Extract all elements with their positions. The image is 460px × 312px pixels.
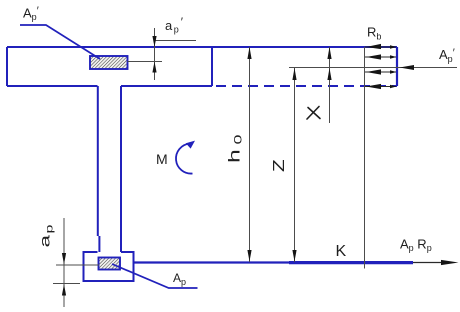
- dimension h0 up arrow: [247, 47, 251, 59]
- svg-text:Z: Z: [269, 159, 287, 172]
- dimension X upper arrow: [327, 47, 331, 59]
- wire web left edge: [98, 86, 100, 252]
- svg-text:Ap′: Ap′: [23, 5, 39, 22]
- dimension ap' up arrow: [152, 62, 156, 73]
- dimension Z vertical line: [294, 68, 296, 263]
- svg-text:K: K: [336, 243, 347, 260]
- label X: [307, 107, 320, 120]
- wire stress ordinate line Rb: [396, 47, 398, 86]
- svg-text:Ap′: Ap′: [439, 47, 455, 64]
- node bottom block outline: [84, 252, 134, 281]
- dimension ap extension line steel: [56, 264, 99, 266]
- moment arc M: [176, 141, 195, 174]
- dimension Z up arrow: [292, 68, 296, 80]
- component reinforcement Ap' hatched rect: [90, 56, 128, 69]
- force Rb arrow row 4: [365, 84, 397, 89]
- wire leader Ap bottom: [112, 264, 198, 288]
- dimension ap extension line soffit: [53, 283, 80, 285]
- force Rb arrow row 2: [365, 54, 397, 59]
- dimension Z down arrow: [292, 250, 296, 262]
- svg-text:Ap Rp: Ap Rp: [400, 237, 432, 254]
- wire flange left edge: [6, 47, 8, 86]
- force Ap' arrow right: [400, 65, 415, 70]
- node top chord line: [7, 46, 397, 48]
- dimension X lower arrow: [327, 68, 331, 80]
- dimension ap' vertical line: [154, 28, 156, 80]
- svg-text:ap: ap: [37, 225, 55, 248]
- wire web right edge: [120, 86, 122, 252]
- svg-text:M: M: [156, 151, 168, 167]
- wire flange right edge: [211, 47, 213, 86]
- force Rb arrow row 3: [365, 69, 397, 74]
- wire flange bottom edge: [7, 85, 212, 87]
- dimension Z extension line and Ap' force line: [289, 67, 457, 69]
- svg-text:ap′: ap′: [165, 15, 184, 35]
- dimension h0 vertical line: [249, 47, 251, 262]
- svg-text:h0: h0: [226, 135, 245, 163]
- node neutral axis dashed line: [216, 85, 397, 87]
- dimension ap' down arrow: [152, 36, 156, 47]
- dimension ap up arrow: [62, 284, 66, 296]
- dimension ap bottom vertical line: [63, 218, 65, 307]
- dimension ap' extension line: [128, 61, 163, 63]
- dimension ap' label shelf: [155, 40, 196, 42]
- dimension h0 down arrow: [247, 250, 251, 262]
- force Rb arrow row 1: [365, 44, 397, 49]
- wire section face line K: [364, 47, 366, 269]
- wire bottom tension line: [134, 261, 414, 263]
- dimension X vertical line: [329, 47, 331, 123]
- component reinforcement Ap hatched rect: [99, 258, 121, 270]
- dimension ap down arrow: [62, 253, 66, 265]
- svg-text:Rb: Rb: [367, 25, 381, 42]
- svg-text:Ap: Ap: [173, 271, 186, 287]
- force Ap Rp arrow bottom right: [413, 260, 459, 265]
- wire leader Ap' top-left: [20, 25, 100, 59]
